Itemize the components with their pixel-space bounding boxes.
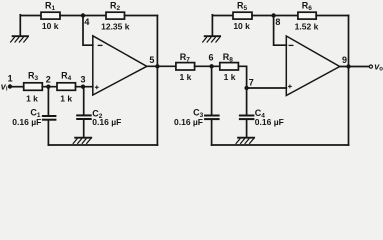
- svg-text:R5: R5: [237, 0, 248, 12]
- svg-text:R8: R8: [223, 52, 234, 64]
- wire top rail left: [20, 15, 41, 17]
- node 5: [149, 55, 159, 68]
- svg-text:0.16 µF: 0.16 µF: [92, 117, 121, 127]
- svg-text:9: 9: [342, 55, 347, 65]
- wire R1 to R2: [60, 15, 106, 17]
- capacitor C1: [12, 87, 55, 145]
- wire R2 to feedback corner: [125, 15, 158, 17]
- wire top rail stage2 left: [212, 15, 233, 17]
- op-amp U1: [93, 36, 147, 95]
- node 4: [81, 13, 90, 27]
- svg-text:8: 8: [275, 17, 280, 27]
- svg-text:R7: R7: [180, 52, 191, 64]
- wire R3 to R4: [42, 86, 57, 88]
- resistor R2: [101, 0, 130, 31]
- svg-text:3: 3: [81, 75, 86, 85]
- wire R6 to feedback corner stage2: [316, 15, 348, 17]
- node 7: [244, 78, 253, 91]
- svg-text:6: 6: [209, 53, 214, 63]
- resistor R1: [41, 0, 60, 31]
- svg-text:1 k: 1 k: [224, 72, 236, 82]
- wire feedback vertical stage1: [156, 16, 158, 146]
- wire R8 to node 7: [238, 66, 246, 88]
- wire node4 to op-amp inverting input: [83, 16, 93, 46]
- wire bottom feedback stage1: [48, 144, 157, 146]
- svg-text:7: 7: [249, 78, 254, 88]
- resistor R4: [57, 71, 76, 104]
- svg-text:R4: R4: [61, 71, 72, 83]
- node 3: [81, 75, 86, 89]
- wire bottom feedback stage2: [212, 144, 349, 146]
- svg-text:4: 4: [84, 17, 89, 27]
- svg-text:0.16 µF: 0.16 µF: [255, 117, 284, 127]
- resistor R6: [295, 0, 319, 31]
- node 8: [271, 13, 280, 27]
- capacitor C2: [77, 87, 121, 138]
- wire R7 to R8: [195, 65, 220, 67]
- ground G2 under C2: [73, 138, 91, 144]
- svg-text:1 k: 1 k: [179, 72, 191, 82]
- wire node8 to op-amp2 inverting input: [274, 16, 287, 46]
- wire feedback vertical stage2: [348, 16, 350, 146]
- svg-text:R3: R3: [28, 71, 39, 83]
- svg-text:1: 1: [8, 74, 13, 84]
- ground G4 under C4: [236, 138, 254, 144]
- op-amp U2: [286, 36, 339, 96]
- svg-text:R6: R6: [302, 0, 313, 12]
- svg-text:R2: R2: [110, 0, 121, 12]
- wire node7 to op-amp2 noninverting input: [247, 87, 287, 89]
- svg-text:10 k: 10 k: [42, 21, 59, 31]
- input terminal vi: [1, 74, 13, 93]
- svg-text:5: 5: [149, 55, 154, 65]
- wire R4 to op-amp noninverting input: [76, 86, 93, 88]
- wire R5 to R6: [252, 15, 298, 17]
- wire node1 to R3: [10, 86, 24, 88]
- wire op-amp2 output: [340, 66, 370, 68]
- svg-text:R1: R1: [45, 0, 56, 12]
- resistor R5: [233, 0, 252, 31]
- svg-text:1.52 k: 1.52 k: [295, 21, 319, 31]
- capacitor C4: [240, 88, 284, 137]
- svg-text:0.16 µF: 0.16 µF: [174, 117, 203, 127]
- resistor R8: [220, 52, 239, 82]
- output terminal vo: [369, 61, 383, 72]
- svg-text:1 k: 1 k: [26, 94, 38, 104]
- ground G1: [11, 15, 28, 42]
- svg-text:2: 2: [46, 75, 51, 85]
- node 6: [209, 53, 214, 69]
- svg-text:1 k: 1 k: [60, 94, 72, 104]
- ground G3: [203, 15, 220, 42]
- resistor R7: [176, 52, 195, 82]
- capacitor C3: [174, 66, 219, 145]
- svg-text:vo: vo: [374, 61, 383, 72]
- wire op-amp1 output: [147, 65, 176, 67]
- resistor R3: [24, 71, 43, 104]
- node 9: [342, 55, 351, 69]
- svg-text:10 k: 10 k: [233, 21, 250, 31]
- svg-text:12.35 k: 12.35 k: [101, 21, 130, 31]
- node 2: [46, 75, 51, 89]
- svg-text:0.16 µF: 0.16 µF: [12, 117, 41, 127]
